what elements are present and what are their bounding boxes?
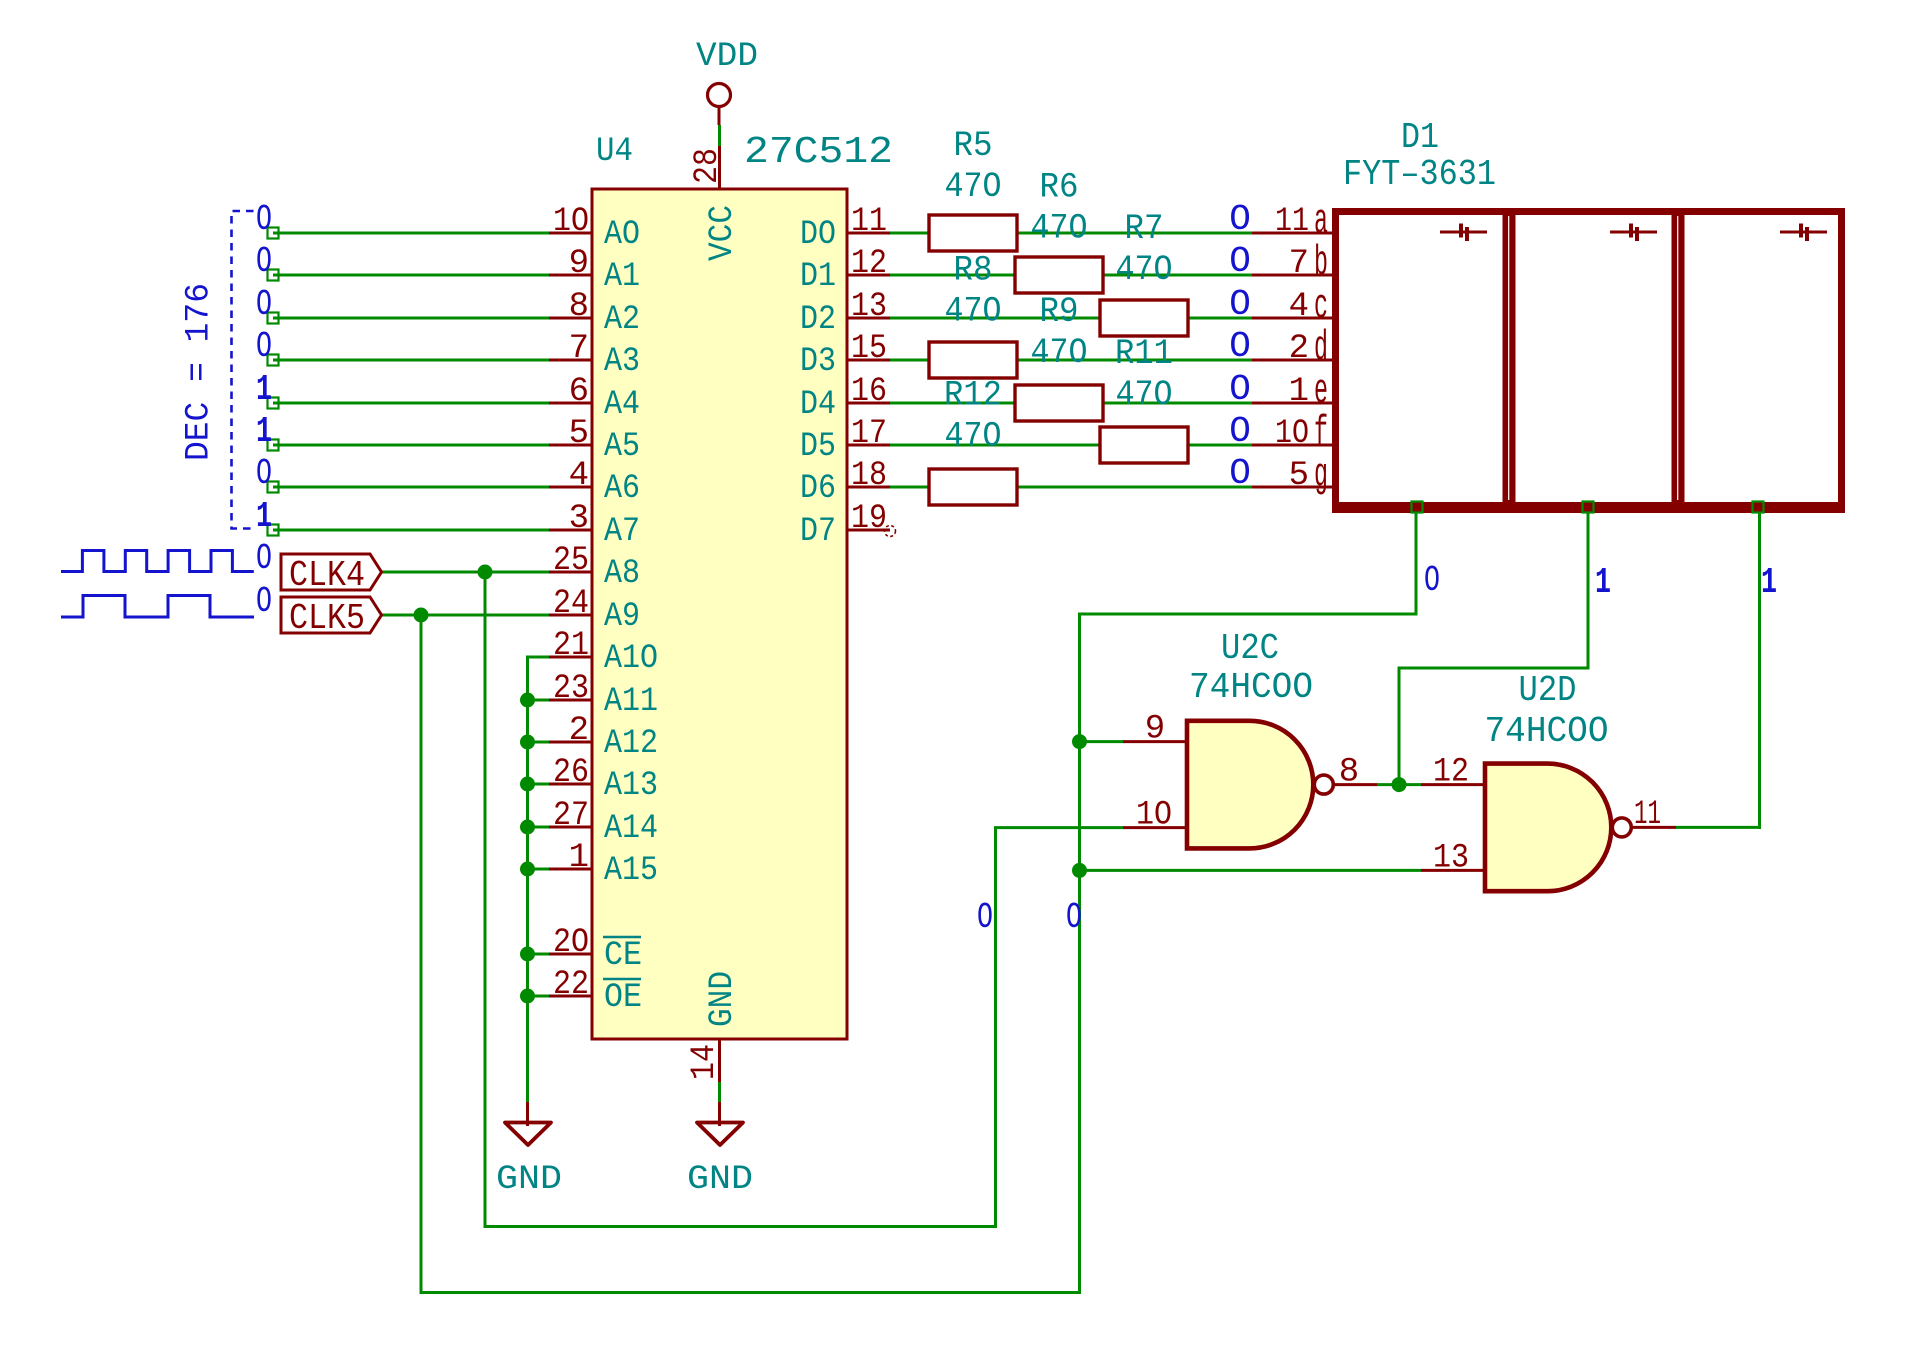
unconnected end square net A7 <box>268 525 279 536</box>
svg-text:7: 7 <box>569 330 589 368</box>
svg-text:CLK4: CLK4 <box>289 555 365 596</box>
pin name A7 <box>604 513 640 551</box>
label R6 <box>1040 168 1079 208</box>
svg-text:O: O <box>256 199 272 240</box>
svg-text:7: 7 <box>1289 245 1309 283</box>
svg-text:4: 4 <box>569 457 589 495</box>
wire D-row left y445 <box>890 444 1102 447</box>
net value 0 at A0 <box>256 199 272 240</box>
global label CLK5 <box>281 597 382 639</box>
svg-text:1O: 1O <box>1136 796 1172 834</box>
svg-text:O: O <box>1066 897 1082 938</box>
pin name D6 <box>800 470 836 508</box>
net value 0 at A2 <box>256 284 272 325</box>
svg-text:47O: 47O <box>945 167 1002 207</box>
svg-text:O: O <box>1229 453 1251 494</box>
pin number 13 (U2D) <box>1433 839 1469 877</box>
net value 0 at CLK5 <box>256 581 272 622</box>
net value 0 at f <box>1229 411 1251 452</box>
label R7 <box>1125 209 1164 249</box>
pin name D0 <box>800 216 836 254</box>
reference D1 <box>1401 117 1439 158</box>
svg-text:D3: D3 <box>800 343 836 381</box>
svg-text:1: 1 <box>1595 562 1611 603</box>
pin 24 stub (A9) <box>549 614 592 617</box>
wire D-row right y487 <box>1015 486 1253 489</box>
ground symbol center <box>697 1123 743 1146</box>
pin number 11 (U2D) <box>1634 796 1661 834</box>
pin 11 stub (D0) <box>847 232 890 235</box>
svg-text:c: c <box>1314 282 1328 330</box>
resistor R8 body <box>929 342 1017 378</box>
junction at 421,615 <box>414 608 429 623</box>
svg-text:DO: DO <box>800 216 836 254</box>
svg-text:DEC = 176: DEC = 176 <box>181 283 219 461</box>
pin number 9 (U2C) <box>1145 711 1165 749</box>
pin number 15 <box>851 330 887 368</box>
pin name A14 <box>604 810 658 848</box>
net value 0 at A6 <box>256 453 272 494</box>
pin 20 stub (CE) <box>549 953 592 956</box>
junction at 485,572 <box>478 565 493 580</box>
wire net A5 to pin A5 <box>273 444 549 447</box>
resistor R7 body <box>1100 300 1188 336</box>
display pin number 10 <box>1275 415 1309 453</box>
unconnected end square net A6 <box>268 482 279 493</box>
display pin number 7 <box>1289 245 1309 283</box>
display bottom pin square x1758 <box>1753 502 1764 513</box>
pin 26 stub (A13) <box>549 783 592 786</box>
display pin name e <box>1314 367 1328 415</box>
label R9 <box>1040 292 1079 332</box>
svg-text:9: 9 <box>1145 711 1165 749</box>
pin number 25 <box>553 542 589 580</box>
svg-text:FYT–3631: FYT–3631 <box>1343 154 1496 195</box>
power symbol VDD <box>708 84 731 126</box>
svg-text:A14: A14 <box>604 810 658 848</box>
display pin number 11 <box>1275 203 1309 241</box>
svg-text:D7: D7 <box>800 513 836 551</box>
label R5 value 470 <box>945 167 1002 207</box>
net value 1 at A7 <box>256 496 272 537</box>
svg-text:11: 11 <box>1275 203 1309 241</box>
svg-text:A12: A12 <box>604 725 658 763</box>
label U2C 74HC00 <box>1189 667 1313 708</box>
pin number 1 <box>569 839 589 877</box>
svg-text:CE: CE <box>604 937 642 975</box>
svg-text:12: 12 <box>1433 754 1469 792</box>
IC U4 27C512 body <box>592 189 847 1039</box>
wire D-row left y360 <box>890 359 931 362</box>
svg-text:b: b <box>1314 239 1328 287</box>
svg-text:O: O <box>256 538 272 579</box>
svg-text:D6: D6 <box>800 470 836 508</box>
pin name A5 <box>604 428 640 466</box>
wire net A0 to pin A0 <box>273 232 549 235</box>
pin number 8 (U2C) <box>1339 754 1359 792</box>
pin 8 stub (A2) <box>549 317 592 320</box>
wire display seg2 vertical <box>1587 509 1590 670</box>
pin name A6 <box>604 470 640 508</box>
net value 0 at b <box>1229 241 1251 282</box>
svg-text:O: O <box>256 453 272 494</box>
NAND gate U2D <box>1421 764 1676 892</box>
label R8 value 470 <box>945 292 1002 332</box>
svg-text:47O: 47O <box>1116 375 1173 415</box>
wire up to U2C pin9 <box>1078 614 1081 1294</box>
svg-text:D5: D5 <box>800 428 836 466</box>
wire tie at y996 <box>528 995 550 998</box>
svg-text:23: 23 <box>553 670 589 708</box>
pin 14 stub <box>718 1039 721 1082</box>
wire tie at y742 <box>528 741 550 744</box>
wire up to U2C pin10 <box>994 828 997 1228</box>
net value 0 at CLK4 <box>256 538 272 579</box>
svg-text:A13: A13 <box>604 767 658 805</box>
display dp symbol segment 2 <box>1610 224 1657 242</box>
net value 0 at pin9 route <box>1066 897 1082 938</box>
svg-text:CLK5: CLK5 <box>289 598 365 639</box>
pin number 26 <box>553 754 589 792</box>
svg-text:O: O <box>1229 411 1251 452</box>
pin number 27 <box>553 797 589 835</box>
display pin stub 11a <box>1252 232 1332 235</box>
wire tie at y784 <box>528 783 550 786</box>
wire D-row right y445 <box>1186 444 1253 447</box>
pin 18 stub (D6) <box>847 486 890 489</box>
wire display seg1 vertical <box>1415 509 1418 616</box>
bracket DEC=176 <box>232 211 254 529</box>
svg-text:O: O <box>1229 199 1251 240</box>
svg-text:A11: A11 <box>604 683 658 721</box>
svg-text:g: g <box>1314 451 1328 499</box>
pin name A11 <box>604 683 658 721</box>
wire D-row left y233 <box>890 232 931 235</box>
pin 15 stub (D3) <box>847 359 890 362</box>
unconnected end square net A4 <box>268 398 279 409</box>
junction at 527.5,869 <box>520 862 535 877</box>
net value 0 at A1 <box>256 241 272 282</box>
pin number 17 <box>851 415 887 453</box>
pin 4 stub (A6) <box>549 486 592 489</box>
svg-text:47O: 47O <box>945 292 1002 332</box>
pin number 24 <box>553 585 589 623</box>
display bottom border extra <box>1332 502 1845 513</box>
svg-text:11: 11 <box>851 203 887 241</box>
junction at 527.5,700 <box>520 693 535 708</box>
display pin number 4 <box>1289 288 1309 326</box>
wire display seg1 horizontal <box>1078 613 1418 616</box>
svg-text:O: O <box>1229 241 1251 282</box>
pin number 2 <box>569 712 589 750</box>
net value 1 at A4 <box>256 369 272 410</box>
svg-text:VDD: VDD <box>696 38 758 76</box>
wire CLK5 vertical <box>420 615 423 1294</box>
svg-text:2: 2 <box>569 712 589 750</box>
wire net A4 to pin A4 <box>273 402 549 405</box>
svg-text:12: 12 <box>851 245 887 283</box>
svg-text:1: 1 <box>569 839 589 877</box>
svg-text:13: 13 <box>1433 839 1469 877</box>
wire net A7 to pin A7 <box>273 529 549 532</box>
wire tie at y700 <box>528 699 550 702</box>
display divider slit 2 <box>1677 216 1679 500</box>
svg-text:A5: A5 <box>604 428 640 466</box>
svg-text:O: O <box>256 326 272 367</box>
wire net A1 to pin A1 <box>273 274 549 277</box>
pin 10 stub (A0) <box>549 232 592 235</box>
pin number 7 <box>569 330 589 368</box>
pin name D4 <box>800 386 836 424</box>
wire display seg2 horizontal <box>1398 667 1590 670</box>
pin name D1 <box>800 258 836 296</box>
display pin name d <box>1314 324 1328 372</box>
net value 0 at c <box>1229 284 1251 325</box>
svg-text:15: 15 <box>851 330 887 368</box>
display pin stub 10f <box>1252 444 1332 447</box>
pin 3 stub (A7) <box>549 529 592 532</box>
svg-text:5: 5 <box>1289 457 1309 495</box>
svg-text:A1O: A1O <box>604 640 658 678</box>
pin number 8 <box>569 288 589 326</box>
svg-text:21: 21 <box>553 627 589 665</box>
wire U2C pin10 horizontal <box>994 826 1123 829</box>
svg-text:OE: OE <box>604 979 642 1017</box>
svg-text:D1: D1 <box>1401 117 1439 158</box>
svg-text:74HCOO: 74HCOO <box>1189 667 1313 708</box>
wire D-row right y360 <box>1015 359 1253 362</box>
svg-text:1: 1 <box>256 369 272 410</box>
pin 23 stub (A11) <box>549 699 592 702</box>
display pin number 5 <box>1289 457 1309 495</box>
svg-text:16: 16 <box>851 373 887 411</box>
pin number 12 (U2D) <box>1433 754 1469 792</box>
pin name D2 <box>800 301 836 339</box>
net value 0 at pin10 route <box>977 897 993 938</box>
pin number 11 <box>851 203 887 241</box>
pin number 13 <box>851 288 887 326</box>
label GND left <box>496 1161 562 1199</box>
wire net A3 to pin A3 <box>273 359 549 362</box>
value 27C512 <box>744 131 893 174</box>
pin name A10 <box>604 640 658 678</box>
pin 5 stub (A5) <box>549 444 592 447</box>
pin number 20 <box>553 924 589 962</box>
display pin name c <box>1314 282 1328 330</box>
display pin stub 7b <box>1252 274 1332 277</box>
pin 17 stub (D5) <box>847 444 890 447</box>
svg-text:24: 24 <box>553 585 589 623</box>
svg-text:f: f <box>1314 409 1328 457</box>
label R9 value 470 <box>1031 333 1088 373</box>
pin name A1 <box>604 258 640 296</box>
junction at 527.5,827 <box>520 820 535 835</box>
svg-text:O: O <box>977 897 993 938</box>
unconnected end square net A3 <box>268 355 279 366</box>
ground symbol left <box>505 1123 551 1146</box>
wire U2D pin13 horizontal <box>1080 869 1422 872</box>
svg-text:A2: A2 <box>604 301 640 339</box>
pin number 10 <box>553 203 589 241</box>
svg-text:25: 25 <box>553 542 589 580</box>
wire net A6 to pin A6 <box>273 486 549 489</box>
pin name D7 <box>800 513 836 551</box>
svg-text:U2D: U2D <box>1519 670 1577 711</box>
display pin stub 5g <box>1252 486 1332 489</box>
svg-text:R6: R6 <box>1040 168 1079 208</box>
wire CLK5 to pin A9 <box>381 614 549 617</box>
svg-text:O: O <box>1229 369 1251 410</box>
svg-text:D1: D1 <box>800 258 836 296</box>
svg-text:A15: A15 <box>604 852 658 890</box>
pin number 19 <box>851 500 887 538</box>
display pin stub 1e <box>1252 402 1332 405</box>
svg-text:27: 27 <box>553 797 589 835</box>
svg-text:O: O <box>256 581 272 622</box>
wire tie at y827 <box>528 826 550 829</box>
svg-text:2O: 2O <box>553 924 589 962</box>
svg-text:R11: R11 <box>1115 334 1173 374</box>
pin 16 stub (D4) <box>847 402 890 405</box>
pin name A15 <box>604 852 658 890</box>
display dp symbol segment 1 <box>1440 224 1487 242</box>
wire A10 tie vertical <box>526 656 529 1103</box>
net value 1 below display seg3 <box>1761 562 1777 603</box>
wire D-row left y403 <box>890 402 1017 405</box>
wire net A2 to pin A2 <box>273 317 549 320</box>
display bottom pin square x1588 <box>1583 502 1594 513</box>
junction at 527.5,996 <box>520 989 535 1004</box>
reference U4 <box>596 133 633 171</box>
pin 13 stub (D2) <box>847 317 890 320</box>
net value 1 at A5 <box>256 411 272 452</box>
wire U2D out <box>1676 826 1761 829</box>
resistor R12 body <box>929 469 1017 505</box>
label R11 value 470 <box>1116 375 1173 415</box>
pin 2 stub (A12) <box>549 741 592 744</box>
label R7 value 470 <box>1116 250 1173 290</box>
pin number 5 <box>569 415 589 453</box>
svg-text:1: 1 <box>256 496 272 537</box>
display D1 outer box <box>1336 212 1842 510</box>
net value 0 at e <box>1229 369 1251 410</box>
pin 7 stub (A3) <box>549 359 592 362</box>
svg-text:2: 2 <box>1289 330 1309 368</box>
pin 12 stub (D1) <box>847 274 890 277</box>
label GND center <box>687 1161 753 1199</box>
svg-text:17: 17 <box>851 415 887 453</box>
display pin number 2 <box>1289 330 1309 368</box>
svg-text:47O: 47O <box>1031 333 1088 373</box>
label R12 <box>944 375 1002 415</box>
wire pin14 to GND <box>718 1082 721 1102</box>
svg-text:6: 6 <box>569 373 589 411</box>
display divider 2 <box>1672 212 1685 509</box>
resistor R6 body <box>1015 257 1103 293</box>
resistor R9 body <box>1015 385 1103 421</box>
svg-text:d: d <box>1314 324 1328 372</box>
pin name A0 <box>604 216 640 254</box>
svg-text:22: 22 <box>553 966 589 1004</box>
pin 1 stub (A15) <box>549 868 592 871</box>
svg-text:A6: A6 <box>604 470 640 508</box>
svg-text:A9: A9 <box>604 598 640 636</box>
svg-text:R7: R7 <box>1125 209 1164 249</box>
svg-text:74HCOO: 74HCOO <box>1485 711 1609 752</box>
svg-text:1: 1 <box>256 411 272 452</box>
label R11 <box>1115 334 1173 374</box>
pin name D5 <box>800 428 836 466</box>
pin number 12 <box>851 245 887 283</box>
svg-text:26: 26 <box>553 754 589 792</box>
junction at 527.5,742 <box>520 735 535 750</box>
pin number 9 <box>569 245 589 283</box>
pin name A12 <box>604 725 658 763</box>
svg-text:GND: GND <box>496 1161 562 1199</box>
pin name A9 <box>604 598 640 636</box>
pin number 6 <box>569 373 589 411</box>
svg-text:14: 14 <box>686 1044 724 1080</box>
svg-text:VCC: VCC <box>704 205 742 261</box>
svg-text:O: O <box>256 284 272 325</box>
global label CLK4 <box>281 554 382 596</box>
pin 9 stub (A1) <box>549 274 592 277</box>
wire D-row right y403 <box>1101 402 1253 405</box>
svg-text:3: 3 <box>569 500 589 538</box>
display divider slit 1 <box>1508 216 1510 500</box>
svg-text:1: 1 <box>1761 562 1777 603</box>
pin 6 stub (A4) <box>549 402 592 405</box>
svg-text:1O: 1O <box>553 203 589 241</box>
svg-text:13: 13 <box>851 288 887 326</box>
pin number 21 <box>553 627 589 665</box>
pin name GND <box>704 971 742 1027</box>
pin name OE with overline <box>603 979 642 1017</box>
wire D-row left y318 <box>890 317 1102 320</box>
junction at 1399,784.6 <box>1392 777 1407 792</box>
svg-text:O: O <box>1229 284 1251 325</box>
label DEC = 176 <box>181 283 219 461</box>
label R5 <box>954 126 993 166</box>
svg-text:18: 18 <box>851 457 887 495</box>
svg-text:A7: A7 <box>604 513 640 551</box>
pin name A8 <box>604 555 640 593</box>
unconnected pin 19 circle <box>885 526 896 537</box>
junction at 527.5,954 <box>520 947 535 962</box>
pin name D3 <box>800 343 836 381</box>
pin number 28 <box>689 148 727 184</box>
unconnected end square net A0 <box>268 228 279 239</box>
svg-text:28: 28 <box>689 148 727 184</box>
pin 27 stub (A14) <box>549 826 592 829</box>
wire display seg3 vertical <box>1758 509 1761 829</box>
wire CLK4 bottom horizontal <box>485 1225 997 1228</box>
svg-text:27C512: 27C512 <box>744 131 893 174</box>
svg-text:A1: A1 <box>604 258 640 296</box>
label R8 <box>954 251 993 291</box>
pin name A13 <box>604 767 658 805</box>
wire CLK4 to pin A8 <box>381 571 549 574</box>
label U2C <box>1221 628 1279 669</box>
display pin name g <box>1314 451 1328 499</box>
net value 0 at A3 <box>256 326 272 367</box>
svg-text:O: O <box>256 241 272 282</box>
pin number 3 <box>569 500 589 538</box>
pin number 23 <box>553 670 589 708</box>
pin number 4 <box>569 457 589 495</box>
svg-text:O: O <box>1229 326 1251 367</box>
label R6 value 470 <box>1031 209 1088 249</box>
